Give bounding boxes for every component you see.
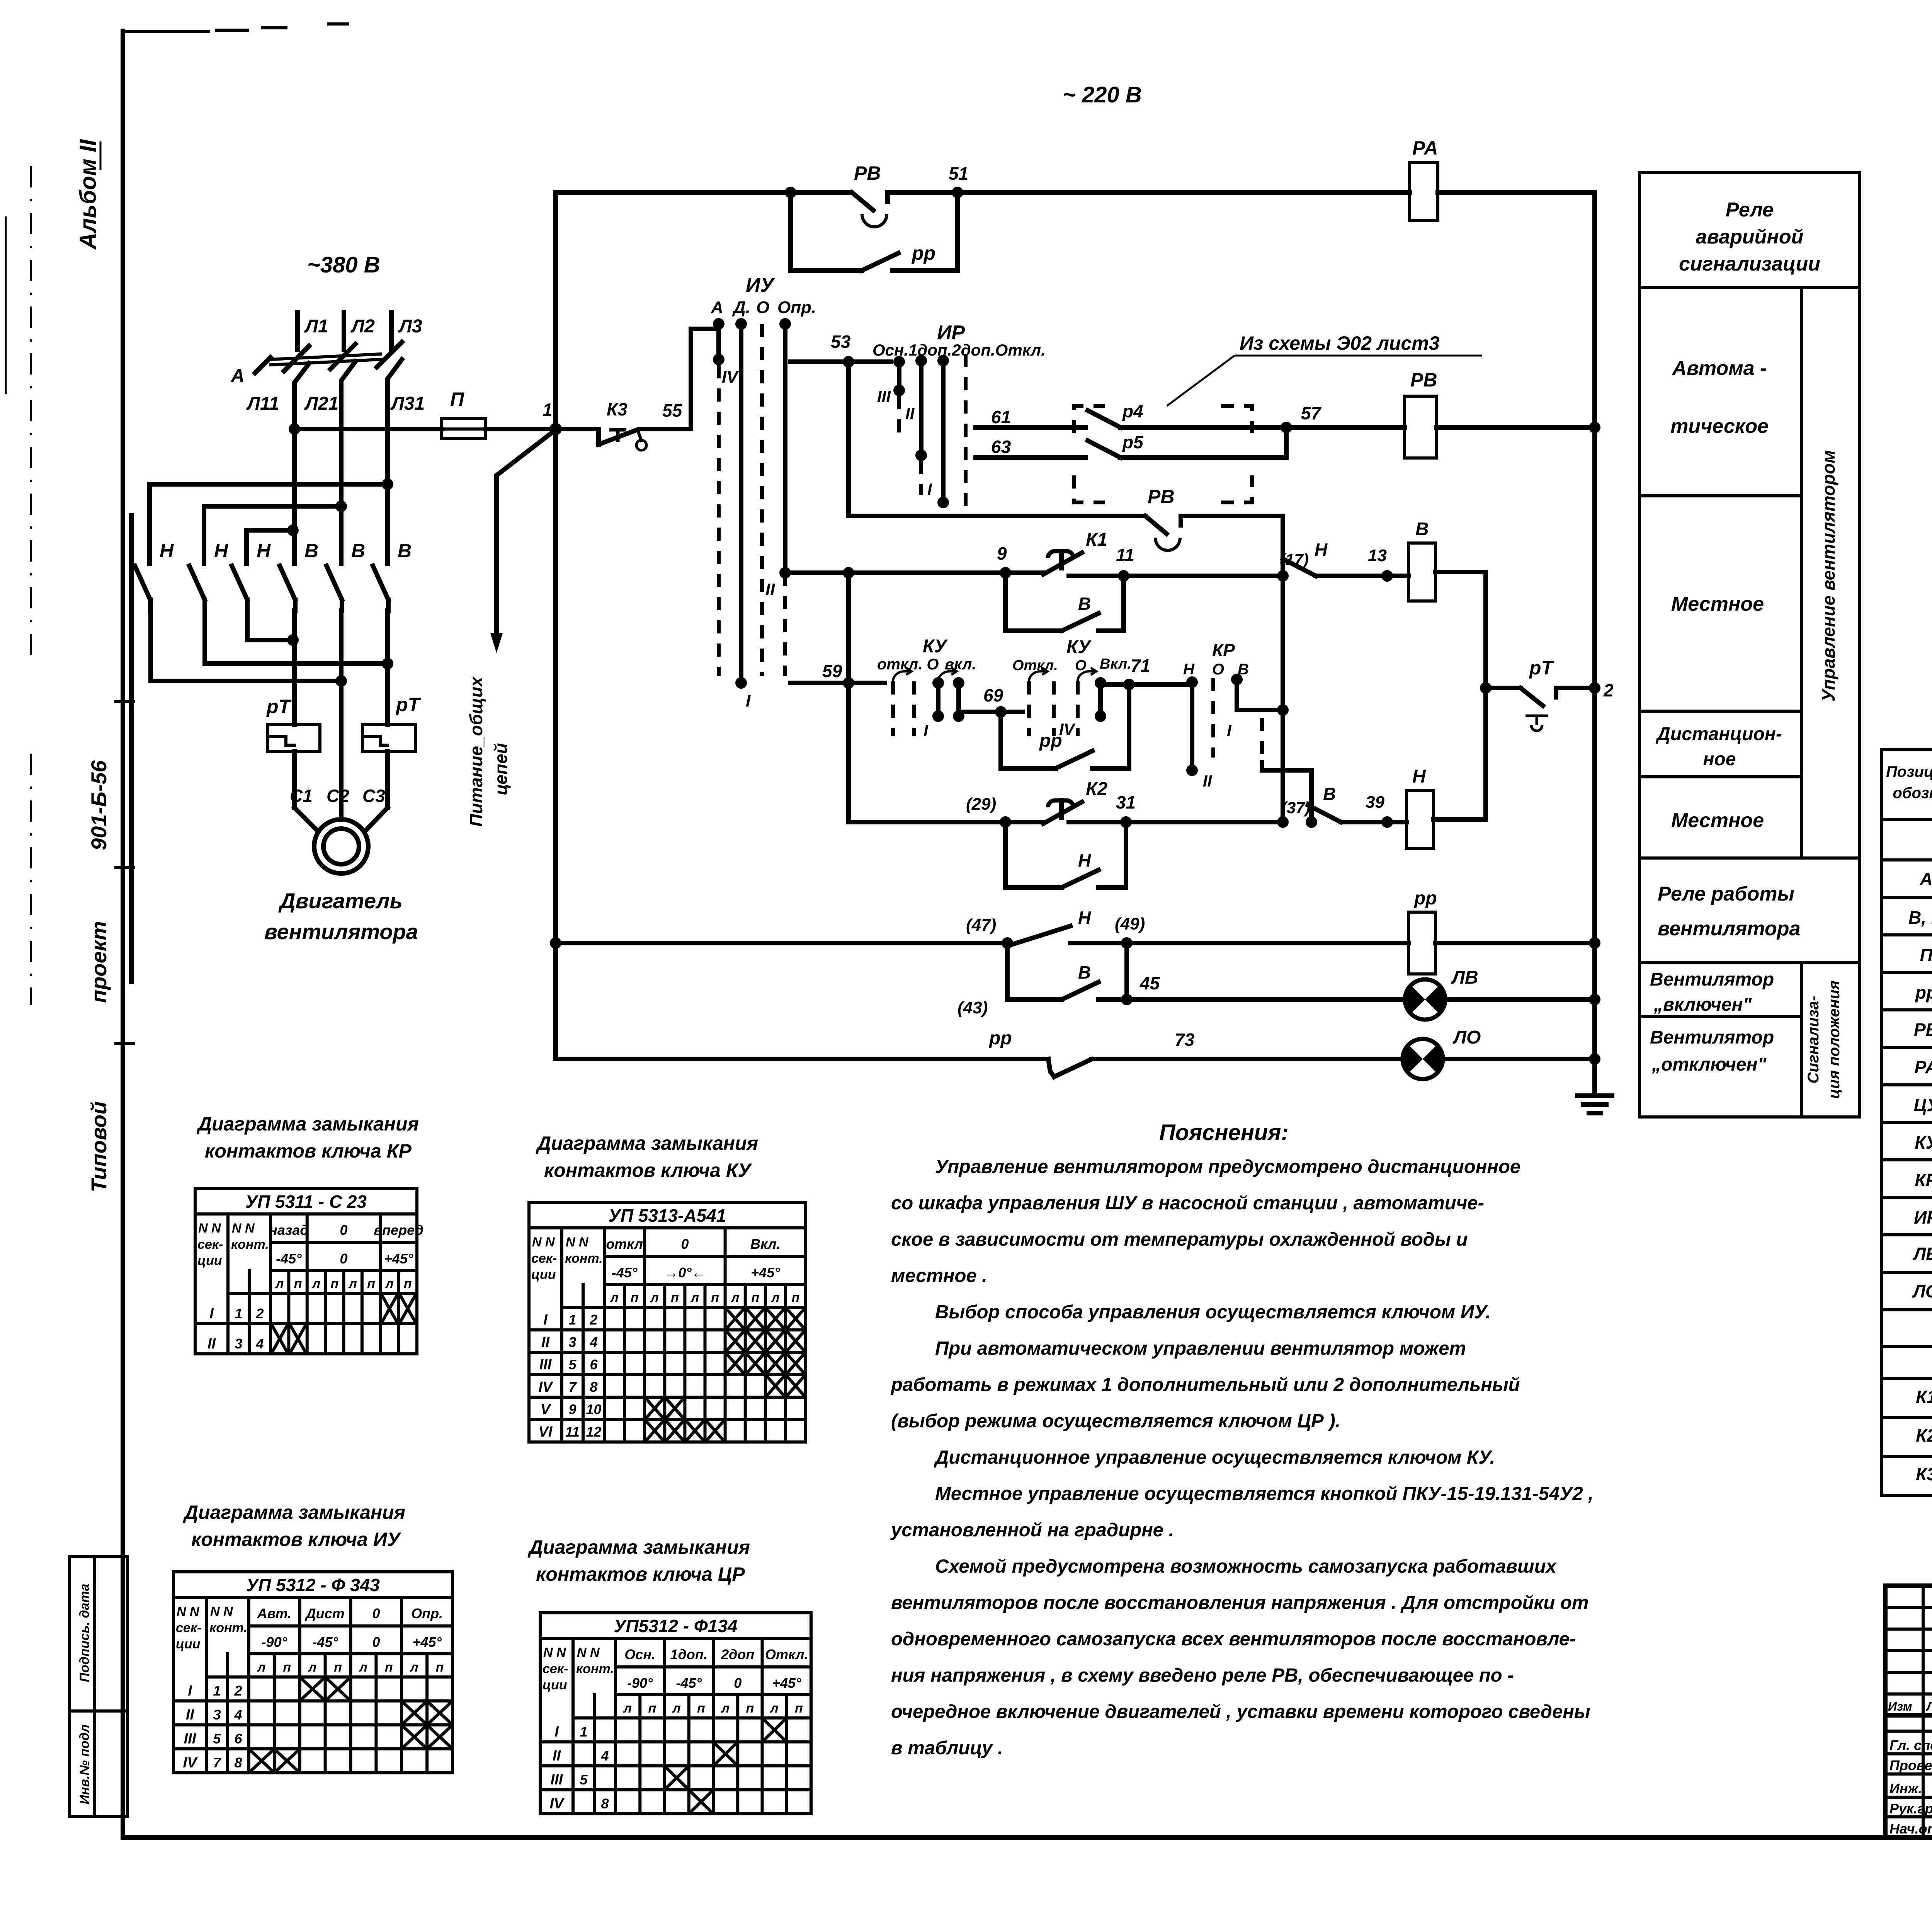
switch KU first group (877, 636, 976, 740)
svg-text:ное: ное (1703, 749, 1736, 770)
svg-text:N N: N N (210, 1604, 233, 1619)
external contacts box p4 p5 (1074, 406, 1252, 502)
svg-text:I: I (188, 1683, 192, 1699)
contact diagram table key KR (195, 1188, 423, 1354)
svg-text:С3: С3 (362, 786, 385, 806)
title block frame (1885, 1586, 1932, 1837)
wire 55 from K3 to IU (639, 329, 717, 429)
wire phase L21 (304, 361, 355, 564)
svg-text:ЦУ: ЦУ (1914, 1095, 1932, 1115)
switch IR (872, 322, 1046, 508)
svg-text:2: 2 (1603, 680, 1614, 700)
svg-text:(49): (49) (1115, 914, 1145, 933)
svg-text:4: 4 (234, 1707, 242, 1723)
svg-text:(37): (37) (1281, 798, 1310, 817)
svg-text:Вентилятор: Вентилятор (1650, 1027, 1774, 1048)
svg-text:0: 0 (372, 1634, 380, 1650)
wire 57 to RV coil (1252, 403, 1405, 458)
svg-text:N N: N N (577, 1645, 600, 1660)
node 37 (1277, 798, 1317, 828)
svg-text:п: п (330, 1277, 338, 1291)
svg-text:П: П (1920, 945, 1932, 965)
svg-text:п: п (711, 1290, 719, 1305)
svg-text:„включен": „включен" (1653, 994, 1752, 1015)
mode table control modes (1639, 288, 1860, 858)
contactor contact Н2 (189, 540, 228, 611)
contact N row47 (966, 907, 1127, 949)
contactor coil V (1387, 519, 1435, 601)
contact V on row 37-39 (1308, 784, 1393, 828)
svg-text:-90°: -90° (627, 1675, 653, 1691)
svg-text:-45°: -45° (276, 1251, 302, 1267)
wire coil V to right column (1435, 572, 1486, 819)
svg-text:2: 2 (234, 1683, 242, 1699)
mode table fan work relay (1639, 858, 1860, 962)
svg-text:1: 1 (580, 1724, 587, 1740)
svg-text:I: I (1227, 722, 1232, 740)
svg-text:п: п (436, 1660, 444, 1675)
label pitanie obshchikh tsepey (466, 676, 511, 827)
svg-text:назад: назад (269, 1222, 308, 1238)
svg-text:ЛО: ЛО (1452, 1027, 1481, 1048)
wire phase L31 (388, 359, 425, 564)
svg-text:К1: К1 (1916, 1387, 1932, 1407)
svg-text:конт.: конт. (565, 1251, 603, 1266)
wire RV coil to trunk (1436, 422, 1600, 433)
svg-text:л: л (770, 1701, 779, 1716)
svg-text:п: п (631, 1290, 639, 1305)
svg-text:Гл. спец.: Гл. спец. (1889, 1737, 1932, 1753)
motor terminal labels C1 C2 C3 (290, 786, 385, 806)
svg-text:Дистанционное управление: Дистанционное управление осуществляется … (934, 1447, 1495, 1468)
svg-text:п: п (795, 1701, 803, 1716)
svg-text:63: 63 (991, 437, 1011, 457)
svg-text:р5: р5 (1122, 432, 1144, 452)
svg-text:аварийной: аварийной (1696, 226, 1804, 248)
svg-text:ЛО: ЛО (1912, 1281, 1932, 1301)
svg-text:КР: КР (1915, 1170, 1932, 1190)
svg-text:л: л (359, 1660, 367, 1675)
wire coil N right (1434, 817, 1486, 822)
contactor coil N (1387, 766, 1434, 848)
svg-text:→0°←: →0°← (664, 1265, 705, 1280)
svg-text:контактов ключа КР: контактов ключа КР (205, 1140, 412, 1162)
svg-text:73: 73 (1175, 1030, 1195, 1050)
svg-text:I: I (923, 722, 929, 740)
svg-text:Н: Н (214, 540, 228, 562)
svg-text:5: 5 (568, 1357, 577, 1372)
mode table fan on/off (1639, 962, 1860, 1117)
bypass loop with relay contact rr (785, 187, 957, 271)
svg-text:IV: IV (722, 368, 739, 386)
svg-text:В: В (1323, 784, 1336, 804)
svg-text:VI: VI (539, 1424, 553, 1440)
svg-text:рТ: рТ (395, 694, 422, 715)
wire K2 row (849, 820, 1043, 824)
wire 11 to node 17 (1069, 545, 1283, 582)
svg-text:Позицион.: Позицион. (1886, 763, 1932, 780)
svg-text:55: 55 (662, 400, 683, 421)
svg-text:+45°: +45° (384, 1251, 413, 1267)
svg-text:Инв.№ подл: Инв.№ подл (77, 1724, 92, 1804)
contact diagram table key KU (529, 1202, 806, 1442)
svg-text:9: 9 (997, 543, 1007, 564)
svg-text:С2: С2 (327, 786, 349, 806)
svg-text:Н: Н (160, 540, 174, 562)
sheet frame bottom border (123, 1835, 1932, 1840)
top rail wire to RV contact (556, 190, 850, 195)
svg-text:Осн.: Осн. (624, 1646, 655, 1662)
svg-text:п: п (294, 1277, 302, 1291)
svg-text:ИУ: ИУ (746, 274, 775, 296)
svg-text:Схемой предусмотрена во: Схемой предусмотрена возможность самозап… (935, 1556, 1557, 1577)
motor column C2 (339, 611, 344, 819)
svg-text:В: В (304, 540, 318, 562)
svg-text:-45°: -45° (312, 1634, 338, 1650)
motor M (314, 819, 368, 873)
svg-text:Питание_общих: Питание_общих (466, 676, 486, 827)
svg-text:К2: К2 (1916, 1425, 1932, 1445)
svg-text:К2: К2 (1086, 779, 1108, 799)
svg-text:59: 59 (822, 661, 842, 681)
time relay contact RV top (852, 162, 888, 227)
svg-text:КУ: КУ (923, 636, 948, 657)
svg-text:ция положения: ция положения (1826, 981, 1843, 1099)
switch KR (1183, 640, 1311, 819)
svg-text:II: II (905, 405, 915, 423)
svg-text:цепей: цепей (491, 743, 511, 795)
wire row 63 (976, 437, 1078, 458)
wire node 53 row (791, 332, 891, 368)
svg-text:10: 10 (586, 1401, 601, 1417)
svg-text:12: 12 (586, 1424, 601, 1440)
svg-text:0: 0 (734, 1675, 742, 1691)
svg-text:V: V (541, 1401, 551, 1418)
svg-text:71: 71 (1131, 655, 1150, 676)
svg-text:IV: IV (539, 1379, 554, 1395)
svg-text:4: 4 (600, 1748, 609, 1764)
svg-text:Диаграмма замыкания: Диаграмма замыкания (536, 1132, 758, 1154)
svg-text:л: л (721, 1701, 730, 1716)
svg-text:N N: N N (198, 1221, 221, 1236)
thermal relay RT heater right (362, 694, 422, 751)
wire lamp LO to trunk (1441, 1053, 1600, 1065)
element row A (1919, 869, 1932, 889)
svg-text:обознач.: обознач. (1893, 785, 1932, 802)
left frame tick marks (6, 216, 133, 1044)
svg-text:„отключен": „отключен" (1651, 1054, 1767, 1075)
svg-text:Откл.: Откл. (765, 1646, 808, 1662)
svg-text:ЛВ: ЛВ (1451, 967, 1478, 988)
svg-text:Авт.: Авт. (257, 1605, 291, 1621)
svg-text:2: 2 (589, 1312, 597, 1328)
svg-text:-45°: -45° (612, 1265, 638, 1280)
svg-text:л: л (672, 1701, 681, 1716)
svg-text:КУ: КУ (1066, 637, 1092, 657)
svg-text:1доп.: 1доп. (670, 1646, 707, 1662)
svg-text:А: А (231, 366, 245, 386)
svg-text:очередное включение двига: очередное включение двигателей , уставки… (891, 1701, 1590, 1722)
element row LV (1913, 1244, 1932, 1264)
svg-text:п: п (648, 1701, 656, 1716)
title block signature rows (1889, 1737, 1932, 1837)
mode table relay emergency signaling (1639, 172, 1860, 288)
wire node53 down to RV contact row (849, 362, 1145, 516)
diagram title IU (183, 1502, 405, 1550)
phase line L3 (391, 312, 422, 350)
svg-text:Н: Н (257, 540, 271, 562)
svg-text:3: 3 (568, 1334, 576, 1350)
svg-text:(29): (29) (966, 795, 996, 814)
wire bottom row H3 to L11 (247, 600, 299, 646)
svg-text:л: л (730, 1290, 739, 1305)
svg-text:ции: ции (176, 1637, 201, 1651)
contactor contact В5 (327, 540, 365, 611)
title block left header row (1888, 1699, 1932, 1714)
wire node 69 (959, 685, 1022, 718)
wire row 61 (976, 407, 1078, 427)
svg-text:Н: Н (1315, 540, 1328, 560)
svg-text:В: В (1078, 594, 1091, 614)
svg-text:РА: РА (1914, 1057, 1932, 1077)
svg-text:I: I (543, 1312, 548, 1328)
element row RA (1914, 1050, 1932, 1084)
wire rr coil to trunk (1435, 937, 1600, 949)
svg-text:РА: РА (1412, 137, 1438, 159)
svg-text:0: 0 (681, 1236, 689, 1252)
contactor contact В4 (280, 540, 318, 611)
svg-text:Местное: Местное (1671, 593, 1764, 615)
svg-text:III: III (877, 387, 891, 405)
wire RV contact to node 51 (888, 190, 957, 195)
top rail wire 51 to RA coil (957, 190, 1410, 195)
svg-text:Изм: Изм (1888, 1699, 1912, 1713)
svg-text:2доп: 2доп (721, 1646, 754, 1662)
svg-text:л: л (650, 1290, 659, 1305)
svg-text:р4: р4 (1122, 401, 1143, 421)
node 9 (997, 543, 1011, 579)
svg-text:II: II (765, 580, 775, 599)
svg-text:Инж.: Инж. (1889, 1781, 1922, 1796)
control feed wire from L11 to fuse (289, 423, 441, 435)
wire row 47-49 (550, 937, 1007, 949)
svg-text:(выбор режима осуществля: (выбор режима осуществляется ключом ЦР )… (891, 1411, 1340, 1432)
contactor contact В6 (373, 540, 412, 611)
svg-text:N N: N N (532, 1235, 555, 1250)
svg-text:Вкл.: Вкл. (1100, 656, 1131, 672)
node 29 (966, 795, 1011, 828)
svg-text:Вкл.: Вкл. (750, 1236, 781, 1252)
contact rr bottom (988, 1028, 1404, 1077)
svg-text:7: 7 (568, 1379, 577, 1395)
svg-text:Выбор способа управлени: Выбор способа управления осуществляется … (935, 1302, 1491, 1323)
svg-text:0: 0 (372, 1605, 380, 1621)
svg-text:рр: рр (1039, 730, 1062, 751)
element row K1 (1916, 1387, 1932, 1407)
svg-text:л: л (690, 1290, 699, 1305)
svg-text:п: п (671, 1290, 679, 1305)
node 51 (949, 163, 968, 198)
phase line L1 (298, 312, 328, 350)
element row V,N (1908, 907, 1932, 928)
svg-text:ское в зависимости от: ское в зависимости от температуры охлажд… (891, 1229, 1468, 1250)
motor column C1 (294, 611, 318, 831)
svg-text:~380 В: ~380 В (307, 252, 380, 278)
contact p5 (1078, 432, 1252, 458)
svg-text:Л11: Л11 (246, 393, 279, 414)
sheet frame left border (123, 24, 348, 1837)
svg-text:К3: К3 (1916, 1464, 1932, 1484)
svg-text:контактов ключа КУ: контактов ключа КУ (544, 1159, 752, 1181)
svg-text:л: л (609, 1290, 618, 1305)
callout iz skhemy E02 list3 (1167, 332, 1482, 406)
svg-text:сек-: сек- (197, 1237, 223, 1252)
svg-text:II: II (207, 1336, 216, 1352)
contactor contact Н3 (232, 540, 271, 611)
svg-text:4: 4 (589, 1334, 597, 1350)
svg-text:Дист: Дист (305, 1605, 345, 1621)
svg-text:II: II (553, 1748, 561, 1764)
svg-text:сигнализации: сигнализации (1679, 253, 1820, 275)
element row rr (1915, 982, 1932, 1003)
svg-text:ции: ции (543, 1678, 567, 1692)
svg-text:В: В (1415, 519, 1429, 540)
element list header texts (1886, 759, 1932, 853)
svg-text:8: 8 (601, 1796, 609, 1811)
svg-text:Рук.гр.: Рук.гр. (1889, 1801, 1932, 1817)
element row TsU (1914, 1095, 1932, 1115)
svg-text:Опр.: Опр. (777, 298, 816, 317)
svg-text:I: I (927, 480, 932, 498)
svg-text:рТ: рТ (1529, 657, 1555, 679)
svg-text:3: 3 (213, 1707, 221, 1723)
svg-text:0: 0 (340, 1222, 347, 1238)
relay coil rr (1408, 888, 1437, 974)
vertical link K1row-59row-K2row (846, 573, 851, 822)
svg-text:тическое: тическое (1670, 415, 1769, 438)
svg-text:901-Б-56: 901-Б-56 (87, 760, 111, 850)
svg-text:Местное управление осуще: Местное управление осуществляется кнопко… (935, 1483, 1594, 1504)
svg-text:рр: рр (988, 1028, 1012, 1049)
pushbutton K3 (556, 399, 646, 450)
svg-text:Сигнализа-: Сигнализа- (1805, 996, 1822, 1084)
svg-text:в таблицу .: в таблицу . (891, 1738, 1003, 1759)
svg-text:л: л (308, 1660, 316, 1675)
wire RV contact to node 17 (1181, 516, 1283, 573)
svg-text:контактов ключа ЦР: контактов ключа ЦР (536, 1563, 745, 1585)
svg-text:Реле: Реле (1726, 199, 1774, 221)
svg-text:рр: рр (911, 242, 935, 264)
svg-text:Н: Н (1412, 766, 1426, 787)
svg-text:61: 61 (991, 407, 1011, 427)
svg-text:57: 57 (1301, 403, 1322, 423)
svg-text:А: А (711, 298, 723, 317)
signal lamp LV (1405, 967, 1478, 1020)
svg-text:0: 0 (340, 1251, 347, 1267)
svg-text:8: 8 (234, 1755, 242, 1771)
svg-text:Вентилятор: Вентилятор (1650, 969, 1774, 990)
svg-text:-45°: -45° (676, 1675, 702, 1691)
bypass contact rr lower (1001, 684, 1129, 768)
contact diagram table key IU (173, 1572, 452, 1773)
svg-text:УП 5311 - С 23: УП 5311 - С 23 (245, 1192, 367, 1212)
svg-text:л: л (623, 1701, 632, 1716)
svg-text:вперед: вперед (374, 1222, 423, 1238)
svg-text:конт.: конт. (209, 1621, 247, 1635)
svg-text:О: О (1212, 661, 1224, 678)
svg-text:контактов ключа ИУ: контактов ключа ИУ (191, 1529, 402, 1550)
svg-text:Провер.: Провер. (1889, 1757, 1932, 1773)
diagram title KR (196, 1113, 419, 1162)
svg-text:II: II (541, 1334, 550, 1350)
svg-text:п: п (404, 1277, 412, 1291)
node 1 (543, 400, 562, 435)
svg-text:Н: Н (1183, 661, 1195, 678)
svg-text:6: 6 (234, 1731, 242, 1747)
svg-text:N N: N N (177, 1604, 200, 1619)
svg-text:5: 5 (580, 1772, 588, 1788)
wire 49 to rr coil (1127, 941, 1408, 945)
vertical node17 to node37 (1277, 576, 1289, 819)
svg-text:Управление вентилятором: Управление вентилятором (1818, 450, 1838, 702)
stamp text Tipovoy (87, 1101, 111, 1192)
svg-text:+45°: +45° (751, 1265, 780, 1280)
wire K1 row (779, 567, 1043, 579)
svg-text:л: л (384, 1277, 393, 1291)
element list table grid (1882, 750, 1932, 1495)
fuse P (441, 388, 486, 439)
contact p4 (1078, 401, 1252, 427)
pushbutton K1 (1043, 529, 1107, 574)
svg-text:53: 53 (831, 332, 851, 352)
svg-text:Н: Н (1078, 907, 1091, 928)
wire lamp LV to trunk (1444, 994, 1600, 1005)
svg-text:(47): (47) (966, 916, 996, 935)
diagram title KU (536, 1132, 758, 1181)
svg-text:одновременного самозапуска: одновременного самозапуска всех вентилят… (891, 1629, 1576, 1650)
thermal contact RT (1480, 657, 1614, 731)
wire fuse to node 1 (486, 427, 556, 431)
svg-text:РВ: РВ (1914, 1020, 1932, 1040)
element row KU (1915, 1132, 1932, 1153)
svg-text:п: п (751, 1290, 759, 1305)
svg-text:39: 39 (1366, 793, 1384, 812)
svg-text:рТ: рТ (266, 696, 292, 717)
left trunk wire node1 up to top rail (553, 192, 558, 429)
element row P (1920, 945, 1932, 965)
element row RV (1914, 1013, 1932, 1047)
svg-text:11: 11 (565, 1424, 580, 1440)
wire row to L21 (204, 501, 347, 564)
wire bottom row 73 (556, 1057, 1048, 1061)
svg-text:л: л (348, 1277, 357, 1291)
pushbutton K2 (1043, 779, 1108, 824)
element row KR (1915, 1170, 1932, 1190)
svg-text:рр: рр (1915, 982, 1932, 1003)
svg-text:вентиляторов после восст: вентиляторов после восстановления напряж… (891, 1592, 1588, 1613)
svg-text:При автоматическом управл: При автоматическом управлении вентилятор… (935, 1338, 1466, 1359)
svg-text:ции: ции (531, 1267, 556, 1282)
svg-text:п: п (334, 1660, 342, 1675)
svg-text:II: II (186, 1707, 195, 1723)
svg-text:Л21: Л21 (304, 393, 338, 414)
top rail wire RA to right trunk (1438, 190, 1595, 195)
svg-text:9: 9 (568, 1401, 576, 1417)
svg-text:К1: К1 (1086, 529, 1107, 550)
svg-text:1: 1 (543, 400, 553, 420)
svg-text:Диаграмма замыкания: Диаграмма замыкания (527, 1536, 750, 1558)
stamp text inv no podl (70, 1557, 128, 1817)
